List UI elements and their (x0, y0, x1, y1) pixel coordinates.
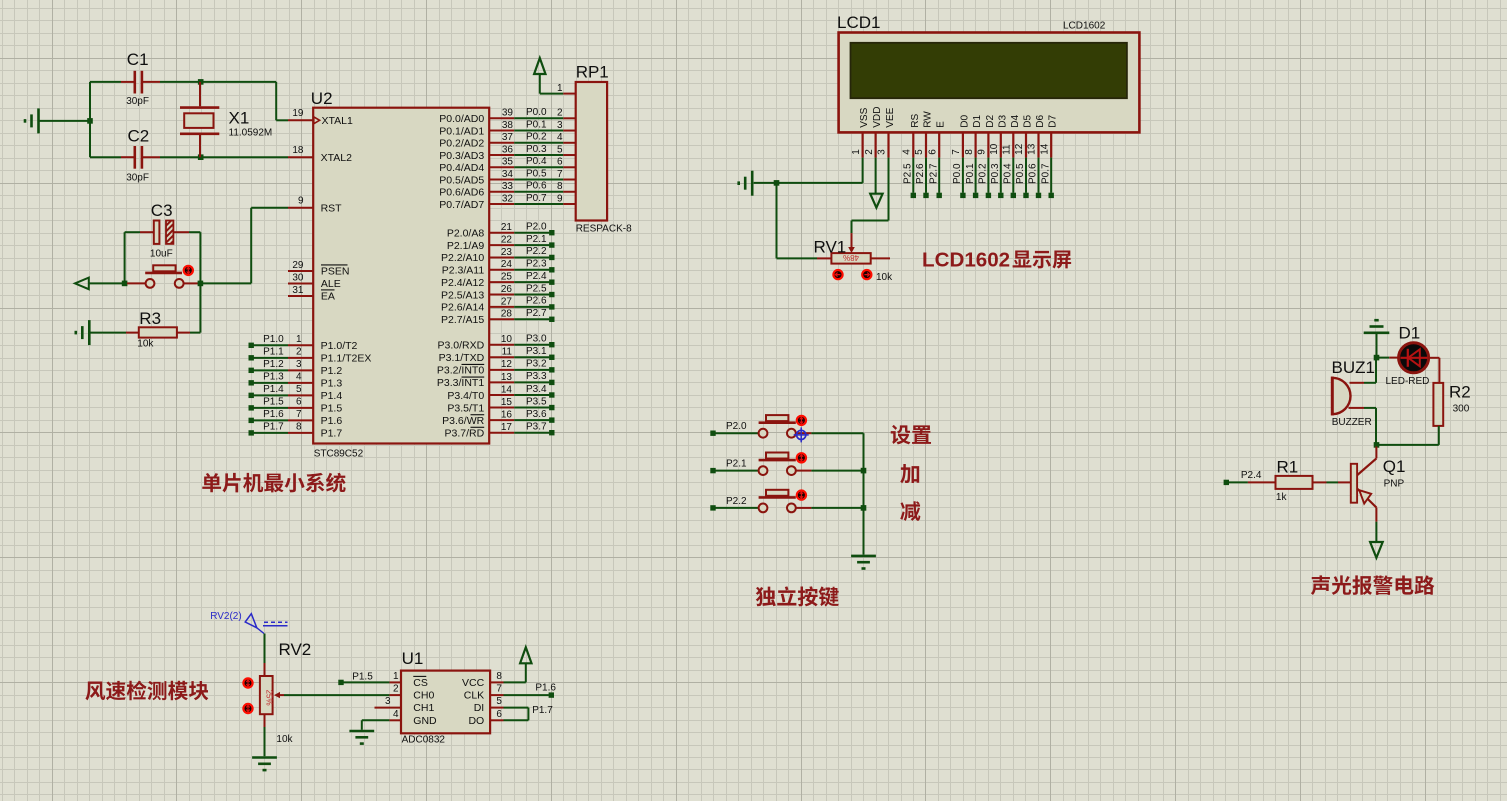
wire (811, 470, 863, 472)
svg-text:7: 7 (951, 149, 962, 155)
resistor R3 (126, 285, 200, 338)
svg-text:P2.0: P2.0 (526, 222, 547, 233)
svg-text:32: 32 (502, 193, 514, 204)
mcu U2 body (313, 108, 489, 444)
pin 5 P1.4 wire (249, 384, 343, 402)
svg-text:6: 6 (927, 149, 938, 155)
svg-text:P2.0: P2.0 (726, 421, 747, 432)
svg-text:LCD1602: LCD1602 (1063, 21, 1106, 32)
svg-text:8: 8 (496, 671, 502, 682)
svg-text:P1.3: P1.3 (321, 378, 343, 390)
svg-text:BUZ1: BUZ1 (1332, 358, 1375, 377)
label RP1 (576, 63, 609, 82)
svg-text:3: 3 (385, 696, 391, 707)
svg-text:P0.1: P0.1 (526, 119, 547, 130)
svg-text:3: 3 (296, 359, 302, 370)
svg-text:P1.5: P1.5 (352, 671, 373, 682)
value 10uF (150, 248, 173, 259)
svg-text:10k: 10k (137, 339, 154, 350)
wire (DI-DO link) (504, 708, 529, 721)
svg-text:1: 1 (851, 149, 862, 155)
svg-text:PSEN: PSEN (321, 266, 350, 278)
net label P2.0 (726, 421, 747, 432)
svg-text:CH1: CH1 (413, 702, 434, 714)
pin 31 EA (288, 285, 335, 303)
pin 6 DO (468, 709, 503, 727)
net label P2.1 (726, 459, 747, 470)
svg-text:D1: D1 (1399, 324, 1421, 343)
svg-text:30pF: 30pF (126, 96, 149, 107)
wire (776, 183, 778, 259)
svg-text:X1: X1 (229, 109, 250, 128)
wire (754, 182, 777, 184)
svg-text:P1.2: P1.2 (263, 359, 284, 370)
svg-text:8: 8 (296, 422, 302, 433)
svg-text:17: 17 (501, 422, 513, 433)
pin 23 P2.2 wire (441, 246, 555, 264)
svg-text:6: 6 (296, 397, 302, 408)
svg-text:GND: GND (413, 715, 437, 727)
svg-text:30: 30 (292, 273, 304, 284)
transistor Q1 (1351, 447, 1377, 522)
resistor R2 (1433, 383, 1443, 445)
terminal (reset arrow) (75, 278, 89, 290)
svg-text:10k: 10k (876, 272, 893, 283)
svg-text:22: 22 (501, 234, 513, 245)
terminal (emitter arrow down) (1370, 542, 1383, 558)
pin 14 D7 (LCD) (1039, 115, 1058, 199)
svg-text:5: 5 (296, 384, 302, 395)
ground (U1) (349, 731, 374, 744)
svg-text:STC89C52: STC89C52 (314, 449, 364, 460)
svg-text:VCC: VCC (462, 677, 485, 689)
svg-text:39: 39 (502, 108, 514, 119)
value RESPACK-8 (576, 224, 632, 235)
pin 13 D6 (LCD) (1027, 115, 1046, 199)
svg-text:1: 1 (393, 671, 399, 682)
ground (LCD) (739, 171, 753, 196)
svg-text:P3.3/INT1: P3.3/INT1 (437, 377, 484, 389)
svg-text:P3.0: P3.0 (526, 334, 547, 345)
svg-text:23: 23 (501, 247, 513, 258)
pin 10 D3 (LCD) (989, 115, 1008, 199)
push button (reset) (127, 265, 198, 288)
node A (198, 79, 204, 85)
svg-text:34: 34 (502, 169, 514, 180)
svg-text:CS: CS (413, 677, 428, 689)
label U1 (402, 649, 424, 668)
pin 6 P1.5 wire (249, 397, 343, 415)
label 设置 (891, 425, 931, 444)
svg-text:P1.1: P1.1 (263, 347, 284, 358)
svg-text:4: 4 (557, 132, 563, 143)
svg-text:1: 1 (296, 334, 302, 345)
terminal P2.4 (1224, 480, 1229, 485)
svg-text:P0.3: P0.3 (990, 163, 1001, 184)
svg-text:P3.7: P3.7 (526, 421, 547, 432)
wire (CH0 from RV2) (284, 694, 389, 696)
lcd screen (851, 43, 1127, 98)
svg-text:D1: D1 (972, 115, 983, 128)
svg-text:P3.2: P3.2 (526, 359, 547, 370)
pin 12 D5 (LCD) (1014, 115, 1033, 199)
net label P2.4 (1241, 470, 1262, 481)
label 风速检测模块 (85, 681, 208, 701)
svg-text:P2.6: P2.6 (915, 163, 926, 184)
svg-text:P0.6: P0.6 (1028, 163, 1039, 184)
wire (716, 432, 759, 434)
push button key3 (759, 490, 812, 513)
indicator (key1) (797, 416, 806, 425)
ground (buttons) (851, 556, 876, 569)
svg-text:ADC0832: ADC0832 (402, 735, 446, 746)
pin 19 XTAL1 (288, 108, 353, 127)
svg-text:P3.5: P3.5 (526, 396, 547, 407)
node (reset row left) (122, 281, 128, 287)
svg-text:U1: U1 (402, 649, 424, 668)
svg-text:P2.4/A12: P2.4/A12 (441, 277, 484, 289)
svg-text:P3.1/TXD: P3.1/TXD (439, 352, 485, 364)
svg-text:P2.1: P2.1 (726, 459, 747, 470)
pin 3 CH1 (375, 696, 435, 714)
svg-text:P0.6/AD6: P0.6/AD6 (439, 187, 484, 199)
label Q1 (1383, 457, 1406, 476)
svg-text:P3.1: P3.1 (526, 346, 547, 357)
svg-text:P0.6: P0.6 (526, 181, 547, 192)
svg-text:P0.4: P0.4 (1003, 163, 1014, 184)
svg-text:CH0: CH0 (413, 690, 434, 702)
label 减 (900, 501, 920, 521)
wire (VCC) (504, 663, 526, 682)
indicator (key2) (797, 453, 806, 462)
node (crystal gnd junction) (87, 118, 93, 124)
wire (1364, 359, 1376, 383)
svg-text:P1.7: P1.7 (532, 705, 553, 716)
svg-text:P3.6: P3.6 (526, 409, 547, 420)
svg-text:D4: D4 (1010, 115, 1021, 128)
svg-text:P0.7: P0.7 (1040, 163, 1051, 184)
svg-text:8: 8 (557, 181, 563, 192)
pin 7 P1.6 wire (249, 409, 343, 427)
svg-text:R1: R1 (1277, 458, 1299, 477)
value 300 (1453, 404, 1470, 415)
svg-text:38: 38 (502, 120, 514, 131)
svg-text:P0.1/AD1: P0.1/AD1 (439, 125, 484, 137)
wire (1378, 444, 1439, 446)
indicator (key3) (797, 491, 806, 500)
svg-text:P2.2: P2.2 (726, 496, 747, 507)
node (collector node) (1374, 442, 1380, 448)
pin 39 P0.0 wire (439, 107, 575, 125)
svg-text:300: 300 (1453, 404, 1470, 415)
svg-text:5: 5 (557, 144, 563, 155)
svg-text:33: 33 (502, 181, 514, 192)
pin 2 CH0 (389, 684, 434, 702)
label R2 (1449, 383, 1471, 402)
svg-text:D3: D3 (997, 115, 1008, 128)
svg-text:P2.6/A14: P2.6/A14 (441, 302, 484, 314)
label C3 (151, 201, 173, 220)
svg-text:LCD1: LCD1 (837, 13, 880, 32)
svg-text:P0.2: P0.2 (978, 163, 989, 184)
svg-text:P0.1: P0.1 (965, 163, 976, 184)
pin 9 D2 (LCD) (977, 115, 996, 199)
pin 24 P2.3 wire (442, 259, 555, 277)
svg-text:30pF: 30pF (126, 172, 149, 183)
probe RV2(2) (210, 611, 287, 634)
svg-text:D0: D0 (959, 115, 970, 128)
svg-text:7: 7 (296, 409, 302, 420)
pin 14 P3.4 wire (447, 384, 554, 402)
value 30pF (126, 172, 149, 183)
svg-text:9: 9 (298, 196, 304, 207)
potentiometer RV1 (777, 233, 891, 264)
terminal P2.0 (710, 431, 715, 436)
svg-text:LED-RED: LED-RED (1386, 376, 1430, 387)
wire (201, 156, 288, 158)
svg-text:CLK: CLK (464, 690, 484, 702)
wire (button bus) (863, 433, 865, 554)
svg-text:RV2(2): RV2(2) (210, 611, 242, 622)
svg-text:VEE: VEE (885, 107, 896, 127)
wire (90, 332, 126, 334)
svg-text:P0.7: P0.7 (526, 193, 547, 204)
svg-text:7: 7 (496, 684, 502, 695)
svg-text:P2.2/A10: P2.2/A10 (441, 252, 484, 264)
svg-text:R3: R3 (139, 309, 161, 328)
pin 7 CLK (464, 684, 504, 702)
svg-text:P3.5/T1: P3.5/T1 (447, 402, 484, 414)
svg-text:RV2: RV2 (279, 640, 312, 659)
svg-text:P2.7: P2.7 (928, 163, 939, 184)
wire (CLK) (504, 694, 549, 696)
node (861, 505, 867, 511)
resistor pack RP1 body (576, 82, 607, 221)
wire (1229, 481, 1248, 483)
pin 22 P2.1 wire (447, 234, 555, 252)
svg-text:1k: 1k (1276, 492, 1288, 503)
svg-text:P2.0/A8: P2.0/A8 (447, 228, 485, 240)
value BUZZER (1332, 417, 1372, 428)
terminal P2.2 (710, 505, 715, 510)
svg-text:RV1: RV1 (814, 237, 847, 256)
svg-text:10k: 10k (276, 734, 293, 745)
svg-text:5: 5 (914, 149, 925, 155)
svg-text:P1.2: P1.2 (321, 365, 343, 377)
net label P1.6 (535, 683, 556, 694)
svg-text:9: 9 (977, 149, 988, 155)
svg-text:LCD1602: LCD1602 (922, 249, 1010, 272)
svg-text:13: 13 (1027, 143, 1038, 155)
label BUZ1 (1332, 358, 1375, 377)
wire (201, 82, 288, 120)
push button key1 (759, 415, 812, 438)
svg-text:D5: D5 (1023, 115, 1034, 128)
svg-text:P1.1/T2EX: P1.1/T2EX (321, 353, 372, 365)
svg-text:P2.6: P2.6 (526, 296, 547, 307)
svg-text:P1.0/T2: P1.0/T2 (321, 340, 358, 352)
label 单片机最小系统 (202, 473, 345, 493)
svg-text:2: 2 (393, 684, 399, 695)
node (alarm vcc node) (1374, 355, 1380, 361)
value 30pF (126, 96, 149, 107)
wire (778, 158, 863, 183)
wire (264, 634, 266, 664)
terminal P1.6 (549, 692, 554, 697)
wire (344, 681, 390, 683)
svg-text:P2.4: P2.4 (1241, 470, 1262, 481)
label 独立按键 (756, 586, 839, 606)
wire (89, 82, 91, 157)
svg-text:25%: 25% (264, 690, 273, 706)
pin 3 P1.2 wire (249, 359, 343, 377)
value LCD1602 (1063, 21, 1106, 32)
svg-text:4: 4 (902, 149, 913, 155)
wire (1364, 408, 1376, 443)
svg-text:18: 18 (292, 145, 304, 156)
value 1k (1276, 492, 1288, 503)
svg-text:P2.7: P2.7 (526, 308, 547, 319)
value PNP (1384, 479, 1405, 490)
svg-text:P0.2: P0.2 (526, 132, 547, 143)
svg-text:P2.5/A13: P2.5/A13 (441, 289, 484, 301)
svg-text:2: 2 (296, 347, 302, 358)
label C2 (128, 126, 150, 145)
power (U1 VCC arrow) (520, 647, 531, 663)
pin 4 P1.3 wire (249, 372, 343, 390)
label D1 (1399, 324, 1421, 343)
pin 13 P3.3 wire (437, 371, 555, 389)
svg-text:RW: RW (923, 111, 934, 128)
svg-text:15: 15 (501, 397, 513, 408)
wire (1375, 522, 1377, 542)
capacitor C2 (90, 146, 199, 169)
svg-text:9: 9 (557, 193, 563, 204)
svg-text:P1.6: P1.6 (263, 409, 284, 420)
ground (R3) (76, 320, 90, 345)
pin 18 XTAL2 (288, 145, 352, 164)
svg-text:P2.7/A15: P2.7/A15 (441, 314, 484, 326)
svg-text:P2.1: P2.1 (526, 234, 547, 245)
svg-text:P0.0: P0.0 (952, 163, 963, 184)
pin 38 P0.1 wire (439, 119, 575, 137)
svg-text:RP1: RP1 (576, 63, 609, 82)
svg-text:1: 1 (557, 83, 563, 94)
value LED-RED (1386, 376, 1430, 387)
svg-text:P2.2: P2.2 (526, 246, 547, 257)
svg-text:P2.5: P2.5 (526, 283, 547, 294)
indicator (RV1 right) (862, 270, 871, 279)
svg-text:6: 6 (557, 157, 563, 168)
terminal P2.1 (710, 468, 715, 473)
svg-text:4: 4 (296, 372, 302, 383)
svg-text:P3.2/INT0: P3.2/INT0 (437, 365, 484, 377)
pin 4 RS (LCD) (902, 114, 921, 199)
svg-text:PNP: PNP (1384, 479, 1405, 490)
pin 6 E (LCD) (927, 121, 946, 198)
node (861, 468, 867, 474)
svg-text:P3.0/RXD: P3.0/RXD (438, 340, 485, 352)
svg-text:35: 35 (502, 157, 514, 168)
value 10k (276, 734, 293, 745)
svg-text:10: 10 (501, 334, 513, 345)
svg-text:P1.3: P1.3 (263, 372, 284, 383)
ground (crystal section) (25, 108, 39, 133)
power (RP1 VCC arrow) (534, 58, 545, 74)
indicator (RV2 bottom) (243, 704, 252, 713)
pin 11 P3.1 wire (439, 346, 555, 364)
pin 1 P1.0 wire (249, 334, 358, 352)
svg-text:ALE: ALE (321, 278, 341, 290)
svg-text:P0.5: P0.5 (526, 168, 547, 179)
svg-text:13: 13 (501, 372, 513, 383)
buzzer BUZ1 (1332, 377, 1364, 416)
pin 28 P2.7 wire (441, 308, 555, 326)
net label P1.7 (532, 705, 553, 716)
net label P2.2 (726, 496, 747, 507)
pin 29 PSEN (288, 260, 349, 278)
svg-text:P0.3: P0.3 (526, 144, 547, 155)
svg-text:P1.6: P1.6 (535, 683, 556, 694)
svg-text:Q1: Q1 (1383, 457, 1406, 476)
pin 8 VCC (462, 671, 503, 689)
svg-text:3: 3 (877, 149, 888, 155)
value 11.0592M (229, 127, 273, 138)
svg-text:11: 11 (502, 347, 513, 358)
value ADC0832 (402, 735, 446, 746)
pin 15 P3.5 wire (447, 396, 554, 414)
pin 32 P0.7 wire (439, 193, 575, 211)
potentiometer RV2 (260, 663, 284, 756)
svg-text:D2: D2 (985, 115, 996, 128)
pin 35 P0.4 wire (439, 156, 575, 174)
label LCD1 (837, 13, 880, 32)
svg-text:7: 7 (557, 169, 563, 180)
svg-text:BUZZER: BUZZER (1332, 417, 1372, 428)
pin 21 P2.0 wire (447, 222, 555, 240)
pin 11 D4 (LCD) (1002, 115, 1021, 199)
wire (200, 208, 288, 284)
svg-text:P0.4: P0.4 (526, 156, 547, 167)
svg-text:19: 19 (292, 108, 304, 119)
svg-text:VDD: VDD (872, 106, 883, 127)
svg-text:36: 36 (502, 144, 514, 155)
indicator (reset button) (184, 266, 193, 275)
label 加 (900, 464, 919, 483)
pin 5 RW (LCD) (914, 111, 933, 198)
svg-text:11: 11 (1002, 144, 1013, 155)
indicator (RV1 left) (833, 270, 842, 279)
ground (RV2) (252, 758, 277, 771)
svg-text:XTAL2: XTAL2 (321, 152, 352, 164)
ground (alarm top, up) (1364, 320, 1390, 333)
svg-text:P3.4/T0: P3.4/T0 (447, 390, 484, 402)
pin 5 DI (474, 696, 504, 714)
capacitor C3 (125, 221, 201, 244)
label X1 (229, 109, 250, 128)
value STC89C52 (314, 449, 364, 460)
svg-text:P0.5: P0.5 (1015, 163, 1026, 184)
svg-text:11.0592M: 11.0592M (229, 127, 273, 138)
pin 25 P2.4 wire (441, 271, 555, 289)
svg-text:27: 27 (501, 296, 513, 307)
svg-text:C1: C1 (127, 50, 149, 69)
wire (40, 120, 89, 122)
node (VSS gnd junction) (774, 180, 780, 186)
pin 8 D1 (LCD) (964, 115, 983, 199)
svg-text:P1.4: P1.4 (321, 390, 343, 402)
svg-text:P3.6/WR: P3.6/WR (442, 415, 484, 427)
